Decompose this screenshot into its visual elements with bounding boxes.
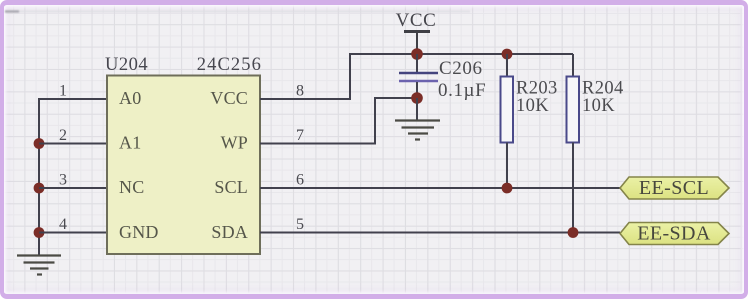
junction pin 3 / bus [34, 183, 45, 194]
wire VCC rail [417, 53, 573, 55]
IC U204 body [107, 76, 260, 255]
VCC power symbol [396, 10, 437, 54]
svg-text:5: 5 [296, 216, 304, 233]
svg-text:1: 1 [59, 83, 67, 100]
wire pin 8 (VCC) [260, 54, 417, 99]
svg-text:0.1µF: 0.1µF [438, 80, 486, 101]
svg-text:SCL: SCL [214, 177, 248, 197]
junction pin 2 / bus [34, 138, 45, 149]
wire C206 to ground [416, 98, 418, 120]
junction WP / C206 / ground [411, 92, 423, 104]
junction R204 / SDA [568, 227, 579, 238]
ground (left) [17, 256, 61, 275]
wire pin 4 (GND) [39, 232, 107, 234]
svg-text:2: 2 [59, 127, 67, 144]
resistor R203 [501, 54, 514, 188]
wire pin 6 (SCL) [260, 187, 620, 189]
svg-text:8: 8 [296, 83, 304, 100]
svg-text:A1: A1 [119, 133, 141, 153]
svg-text:7: 7 [296, 127, 304, 144]
wire pin 3 (NC) [39, 187, 107, 189]
junction pin 4 / bus [34, 227, 45, 238]
svg-text:U204: U204 [105, 55, 148, 75]
svg-text:6: 6 [296, 172, 304, 189]
wire pin 5 (SDA) [260, 232, 620, 234]
svg-text:VCC: VCC [210, 88, 248, 108]
capacitor C206 [399, 54, 438, 98]
svg-text:EE-SCL: EE-SCL [639, 177, 709, 199]
wire pin 2 (A1) [39, 143, 107, 145]
wire left bus [38, 98, 40, 255]
svg-text:WP: WP [221, 133, 248, 153]
junction VCC / C206 [411, 48, 423, 60]
net label EE-SCL [620, 177, 729, 199]
svg-text:NC: NC [119, 177, 144, 197]
svg-text:10K: 10K [582, 96, 615, 116]
svg-text:3: 3 [59, 172, 67, 189]
junction R203 / SCL [502, 183, 513, 194]
svg-text:VCC: VCC [396, 10, 437, 31]
ground (C206) [395, 121, 440, 140]
net label EE-SDA [620, 223, 729, 245]
svg-text:C206: C206 [439, 58, 483, 79]
svg-text:A0: A0 [119, 88, 141, 108]
junction R203 / VCC rail [502, 49, 513, 60]
wire pin 7 (WP) [260, 98, 417, 144]
svg-text:SDA: SDA [211, 222, 248, 242]
svg-text:4: 4 [59, 216, 67, 233]
wire pin 1 (A0) [39, 98, 107, 100]
resistor R204 [567, 54, 580, 233]
svg-text:GND: GND [119, 222, 159, 242]
svg-text:EE-SDA: EE-SDA [637, 223, 711, 245]
svg-text:10K: 10K [516, 96, 549, 116]
svg-text:24C256: 24C256 [197, 55, 262, 75]
